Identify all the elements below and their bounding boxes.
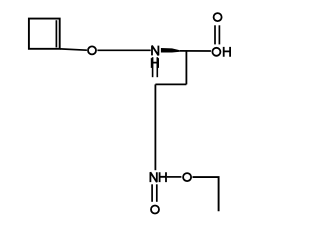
bond ring to ether O — [60, 49, 87, 50]
atom label H (bottom NH) — [160, 172, 166, 182]
atom label O (N-oxide, bottom) — [151, 206, 159, 214]
wedge bond N to C — [161, 48, 180, 53]
cyclobutene ring (square) — [29, 19, 60, 49]
atom label O (ester) — [183, 173, 191, 181]
atom label O (carbonyl) — [214, 13, 222, 21]
ring C=C double bond inner line — [55, 20, 57, 47]
bond O to ethyl CH2 and CH2 to CH3 — [193, 177, 219, 211]
N=O double bond (bottom) — [151, 184, 153, 202]
bond O to N — [97, 49, 150, 51]
bond long vertical down to NH — [154, 84, 156, 170]
atom label N (bottom NH) — [150, 172, 156, 182]
bond C to carboxyl C — [180, 50, 211, 52]
carboxyl C=O double bond — [214, 25, 216, 44]
atom label O (ether) — [88, 46, 96, 54]
bond C down — [185, 51, 187, 85]
H on N — [152, 58, 158, 68]
atom label N — [152, 46, 158, 56]
N=C double bond — [152, 57, 154, 77]
atom label O of carboxyl OH — [212, 48, 220, 56]
atom label H of carboxyl OH — [224, 47, 230, 57]
bond horizontal — [155, 83, 186, 85]
bond NH to ester O — [167, 176, 182, 178]
